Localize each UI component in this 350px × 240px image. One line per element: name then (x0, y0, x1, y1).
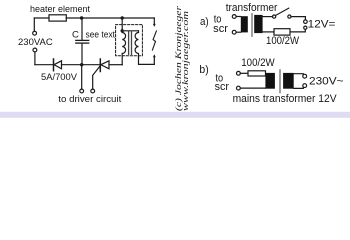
transformer a primary winding block (241, 16, 248, 32)
svg-text:230V~: 230V~ (309, 75, 344, 87)
switch lever (276, 8, 289, 15)
svg-text:to driver circuit: to driver circuit (58, 94, 121, 105)
wire top rail mid segment (66, 17, 154, 19)
svg-text:mains transformer 12V: mains transformer 12V (233, 93, 338, 105)
node junction top-cap (80, 16, 83, 19)
wire b bottom lead (240, 87, 265, 89)
terminal b output upper (303, 74, 307, 78)
svg-text:see text: see text (86, 30, 116, 41)
svg-text:b): b) (199, 64, 208, 76)
wire a output top (291, 17, 305, 20)
wire b output bottom (294, 87, 304, 88)
terminal b-scr upper (237, 71, 241, 75)
transformer b primary winding block (265, 73, 275, 89)
wire a primary top (236, 16, 241, 18)
terminal 230VAC upper (33, 31, 37, 35)
terminal 230VAC lower (33, 48, 37, 52)
wire b top lead (240, 72, 248, 74)
terminal driver left (80, 89, 84, 93)
terminal a output upper (304, 20, 308, 24)
wire spark gap bottom lead (153, 57, 155, 64)
diode D1 triangle (54, 61, 62, 69)
svg-text:transformer: transformer (226, 2, 278, 14)
resistor 100/2W (b) (248, 71, 266, 76)
svg-text:12V=: 12V= (308, 18, 336, 30)
ignition coil secondary winding (135, 31, 138, 57)
wire a secondary top (261, 16, 272, 18)
svg-text:www.kronjaeger.com: www.kronjaeger.com (181, 11, 190, 111)
node junction top-coil (121, 16, 124, 19)
ignition coil dashed enclosure (116, 25, 143, 56)
spark gap bottom electrode arrowhead (153, 54, 156, 57)
wire bottom rail mid (62, 64, 101, 66)
svg-text:scr: scr (213, 23, 228, 35)
wire driver terminal left lead (81, 65, 83, 89)
wire bottom rail left (35, 64, 54, 66)
terminal a-scr upper (232, 15, 236, 19)
wire thyristor gate lead (93, 66, 101, 90)
wire capacitor upper lead (81, 18, 83, 40)
spark gap top electrode arrowhead (153, 24, 156, 27)
transformer b core (279, 70, 281, 93)
resistor (heater element) (49, 15, 66, 21)
wire a primary bottom (236, 31, 241, 33)
ignition coil core (129, 32, 132, 54)
svg-text:heater element: heater element (30, 4, 90, 15)
terminal b output lower (303, 84, 307, 88)
ignition coil primary winding (122, 31, 125, 65)
wire bottom rail right (109, 64, 122, 66)
wire left drop (33, 18, 35, 31)
wire left lower drop (34, 52, 36, 65)
svg-text:100/2W: 100/2W (241, 57, 275, 69)
wire a secondary bottom (261, 31, 274, 33)
wire a output bottom (290, 29, 305, 32)
switch pole circle (273, 15, 276, 18)
resistor 100/2W (a) (274, 29, 290, 35)
svg-text:5A/700V: 5A/700V (41, 72, 78, 83)
capacitor C bottom plate (76, 42, 89, 44)
transformer a secondary winding block (254, 15, 262, 33)
diode D1 cathode bar (53, 59, 55, 71)
svg-text:230VAC: 230VAC (18, 37, 53, 48)
wire secondary bottom lead (139, 57, 155, 64)
wire capacitor lower lead (81, 44, 83, 65)
lavender separator band (0, 112, 350, 118)
terminal a-scr lower (232, 30, 236, 34)
wire b output top (294, 73, 304, 76)
svg-text:C: C (72, 29, 79, 40)
spark bolt (152, 31, 156, 50)
terminal b-scr lower (237, 86, 241, 90)
switch throw circle (288, 15, 291, 18)
wire top rail left segment (34, 17, 49, 19)
svg-text:100/2W: 100/2W (266, 35, 300, 47)
thyristor cathode bar (99, 59, 101, 72)
wire spark gap top lead (153, 18, 155, 25)
terminal a output lower (304, 26, 307, 29)
thyristor triangle (101, 61, 109, 69)
transformer b secondary winding block (283, 73, 294, 89)
node junction bottom-cap (80, 63, 83, 66)
terminal driver right (gate) (91, 89, 95, 93)
node coil common junction (121, 29, 124, 32)
wire coil common lead (121, 18, 123, 31)
wire secondary top lead (122, 30, 138, 32)
transformer a core (251, 14, 253, 36)
capacitor C top plate (76, 39, 89, 41)
svg-text:scr: scr (215, 81, 230, 93)
svg-text:a): a) (200, 16, 209, 28)
